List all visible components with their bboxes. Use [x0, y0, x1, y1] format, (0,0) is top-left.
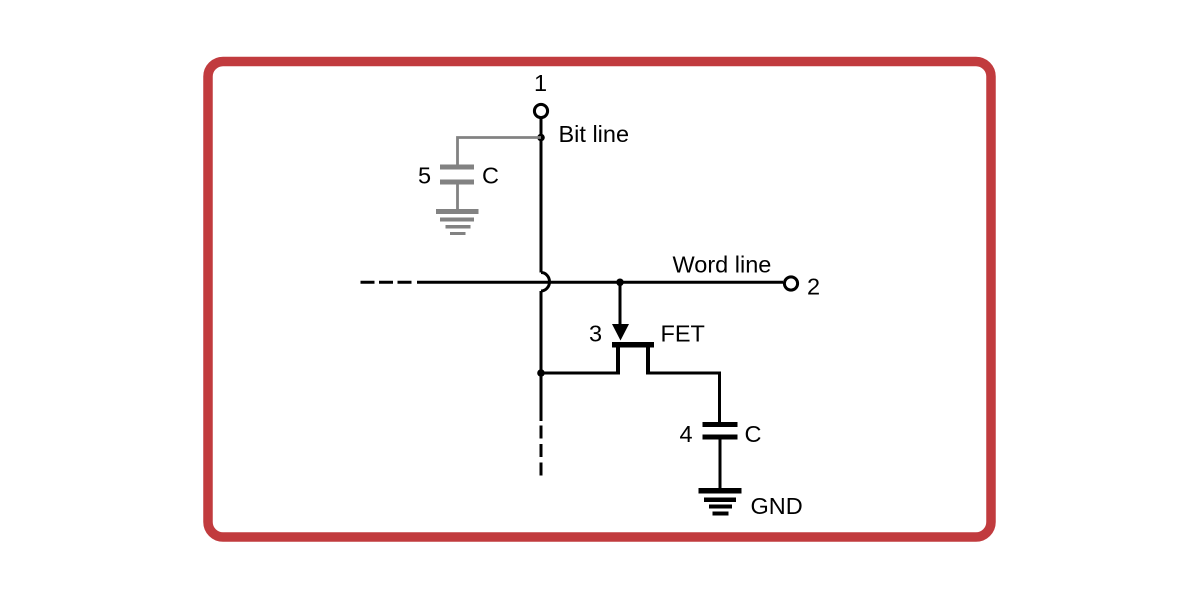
- svg-text:3: 3: [589, 321, 602, 347]
- transistor Q3 gate bar: [612, 342, 654, 348]
- wire drain to capacitor 4: [646, 373, 720, 422]
- node 2 terminal: [784, 277, 797, 290]
- wire source to bit line: [541, 372, 620, 375]
- junction bit line / FET source: [537, 369, 545, 377]
- junction word line / gate: [616, 279, 624, 287]
- svg-text:Word line: Word line: [673, 252, 772, 278]
- capacitor C4: [703, 422, 738, 440]
- capacitor C5: [440, 165, 474, 185]
- wire capacitor 4 to ground: [719, 440, 722, 489]
- ground (capacitor 5): [436, 209, 479, 235]
- svg-text:FET: FET: [661, 321, 705, 347]
- svg-text:5: 5: [418, 163, 431, 189]
- svg-text:Bit line: Bit line: [559, 121, 630, 147]
- wire gate: [619, 282, 622, 328]
- junction bit line / capacitor 5: [537, 134, 545, 142]
- wire bit line dashed continuation: [540, 426, 543, 479]
- svg-text:C: C: [745, 421, 762, 447]
- transistor Q3 drain leg: [646, 348, 650, 374]
- wire word line dashed left stub: [361, 281, 413, 284]
- wire bit line upper segment: [540, 118, 543, 273]
- wire capacitor 5 branch: [458, 138, 542, 165]
- ground GND: [699, 488, 742, 516]
- gate arrow: [612, 324, 629, 341]
- wire bit line hop over word line: [541, 273, 550, 292]
- node 1 terminal: [534, 104, 547, 117]
- svg-text:4: 4: [680, 421, 693, 447]
- svg-text:C: C: [482, 163, 499, 189]
- transistor Q3 source leg: [616, 348, 620, 374]
- svg-text:GND: GND: [751, 493, 803, 519]
- wire capacitor 5 to ground: [456, 185, 459, 210]
- wire word line: [417, 281, 783, 284]
- svg-text:1: 1: [534, 70, 547, 96]
- wire bit line lower segment: [540, 291, 543, 421]
- svg-text:2: 2: [807, 274, 820, 300]
